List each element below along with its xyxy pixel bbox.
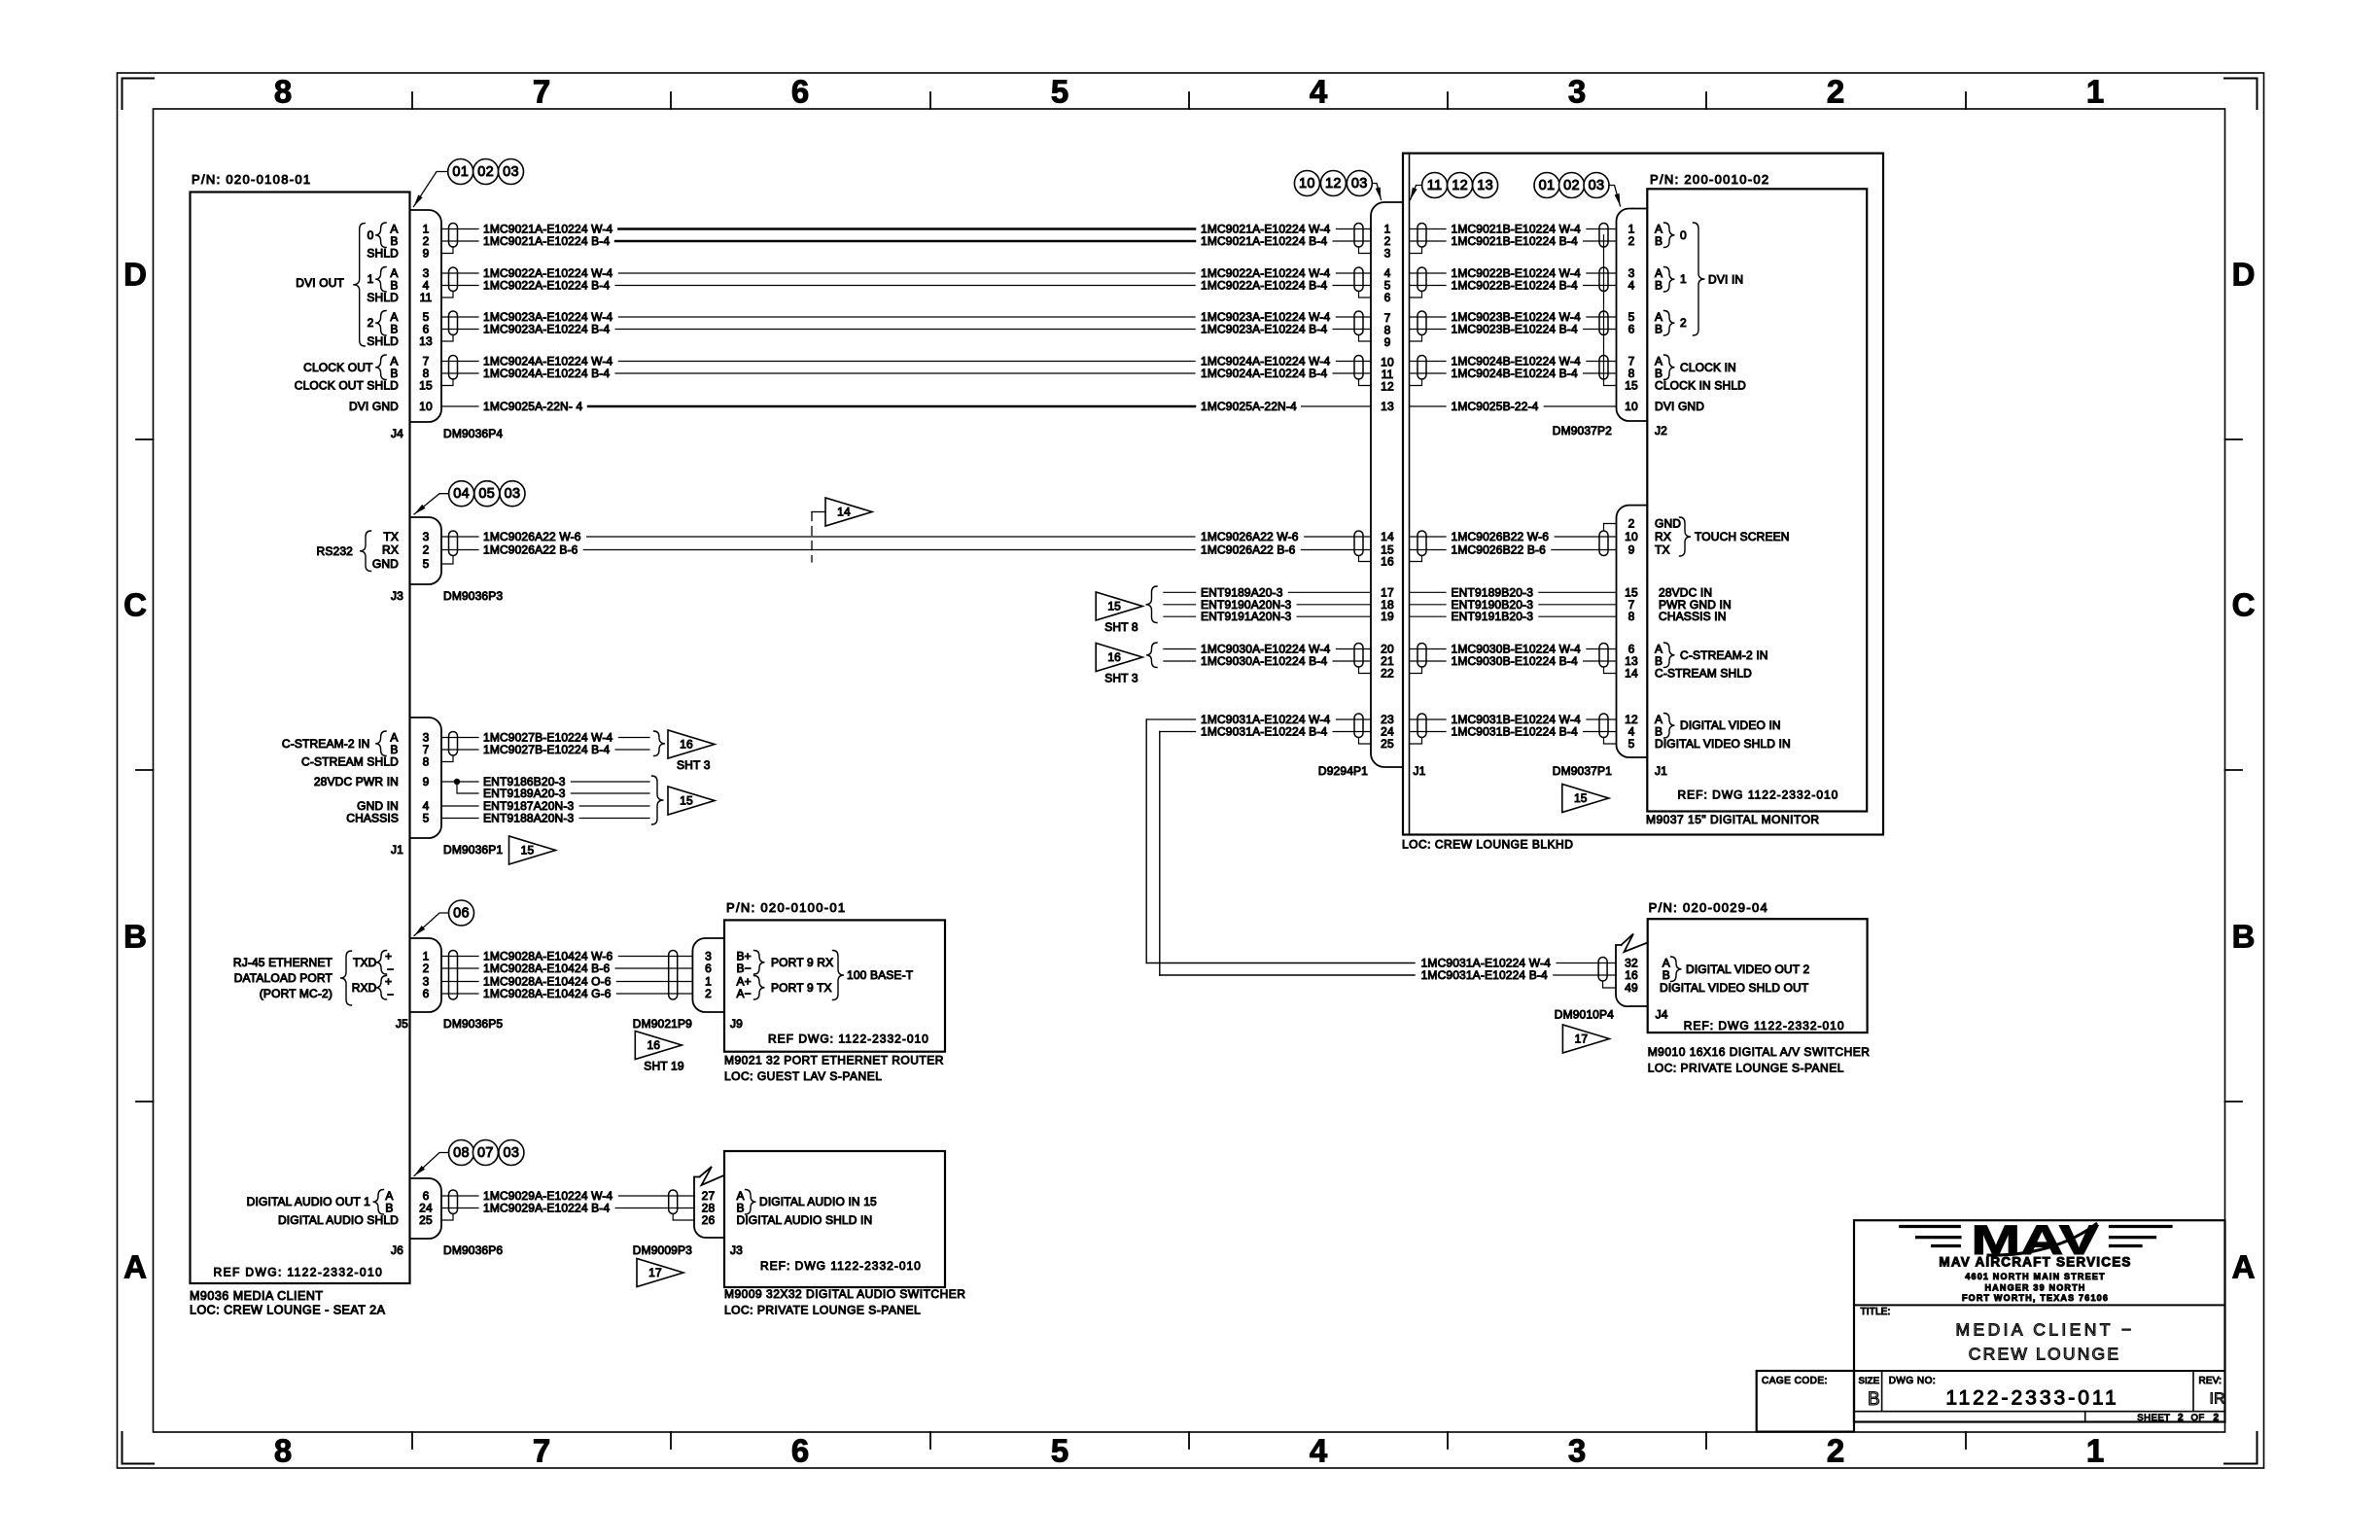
svg-text:01: 01 [452,164,469,180]
wire 1MC9026B22 W-6 [1410,530,1617,543]
title block title divider [1854,1370,2225,1372]
svg-text:(PORT MC-2): (PORT MC-2) [260,987,332,1000]
svg-text:17: 17 [1575,1032,1589,1046]
wire 1MC9029A-E10224 W-4 [441,1189,694,1203]
svg-text:19: 19 [1381,610,1394,623]
title label [1861,1307,1891,1317]
balloon 13 [1473,173,1498,198]
svg-text:J4: J4 [391,427,403,440]
twisted pair symbol 1MC9030A [1354,644,1363,668]
wire 1MC9028A-E10424 G-6 [441,987,692,1000]
J4 pin numbers [419,223,433,414]
svg-text:C-STREAM-2 IN: C-STREAM-2 IN [1680,648,1768,662]
flag 17 at DM9010P4 [1562,1025,1609,1053]
drawing inner border frame [154,109,2225,1432]
svg-text:3: 3 [1568,74,1586,110]
twisted pair symbol 1MC9023A-E10224 at M9036 [449,311,458,335]
svg-text:2: 2 [1628,517,1635,531]
shield hook at DM9010P4 [1603,981,1616,988]
svg-text:05: 05 [478,486,495,502]
wire 1MC9031A-E10224 W-4 lower [1146,957,1616,970]
DM9037P2 label [1553,424,1612,437]
zone tick marks left [136,439,154,1102]
svg-text:J3: J3 [730,1243,743,1257]
svg-text:DM9021P9: DM9021P9 [633,1017,692,1031]
M9009 ref dwg [760,1259,922,1273]
svg-text:1MC9026B22 W-6: 1MC9026B22 W-6 [1452,530,1550,543]
monitor label CHASSIS IN [1659,610,1727,623]
svg-text:26: 26 [702,1213,716,1227]
DM9036P1 label [443,843,503,857]
twisted pair symbol 1MC9031B at bulkhead [1417,714,1426,738]
svg-text:22: 22 [1381,667,1394,681]
svg-text:REF DWG: 1122-2332-010: REF DWG: 1122-2332-010 [214,1266,384,1279]
shield hook left 1MC9023A-E10224 [441,335,453,342]
M9010 location label [1648,1062,1844,1075]
svg-text:C-STREAM SHLD: C-STREAM SHLD [301,755,399,769]
svg-text:15: 15 [680,794,693,808]
dwg no value [1945,1387,2118,1410]
size box divider [1881,1371,1883,1412]
twisted pair symbol 1MC9030B at bulkhead [1417,644,1426,668]
svg-text:ENT9188A20N-3: ENT9188A20N-3 [483,812,575,825]
corner bracket top-right [2224,79,2257,110]
wire 1MC9031B-E10224 W-4 [1410,713,1617,726]
twisted pair symbol 1MC9024A-E10224 at D9294P1 [1354,356,1363,380]
M9037 ref dwg [1678,788,1839,802]
flag 15 at DM9036P1 [509,836,556,864]
svg-text:15: 15 [1574,791,1588,805]
svg-text:REF: DWG 1122-2332-010: REF: DWG 1122-2332-010 [1678,788,1839,802]
svg-text:LOC: GUEST LAV S-PANEL: LOC: GUEST LAV S-PANEL [724,1069,882,1083]
svg-text:PORT 9 TX: PORT 9 TX [771,981,832,995]
svg-text:1MC9030A-E10224 B-4: 1MC9030A-E10224 B-4 [1201,654,1327,668]
sheet row divider [2084,1412,2086,1422]
svg-text:SHEET: SHEET [2137,1413,2170,1423]
size label [1859,1376,1880,1386]
svg-text:13: 13 [419,334,433,348]
svg-text:2: 2 [1680,316,1687,330]
wire 1MC9021B-E10224 B-4 [1410,234,1617,248]
svg-text:P/N: 020-0100-01: P/N: 020-0100-01 [726,900,846,915]
svg-text:9: 9 [423,775,430,788]
wire 1MC9023A-E10224 B-4 [441,323,1371,336]
J5 signal labels RJ-45 [233,950,394,1006]
svg-text:B: B [1662,968,1670,982]
twisted pair symbol 1MC9031B at monitor [1599,714,1608,738]
wire 1MC9024B-E10224 B-4 [1410,367,1617,380]
svg-text:C: C [2232,587,2256,623]
leader to DM9037P2 [1609,186,1621,207]
svg-text:TX: TX [383,530,399,543]
svg-text:1MC9028A-E10424 B-6: 1MC9028A-E10424 B-6 [483,962,610,975]
svg-text:CLOCK IN: CLOCK IN [1680,361,1736,374]
svg-text:2: 2 [423,543,430,557]
wire 1MC9022A-E10224 W-4 [441,266,1371,280]
svg-text:6: 6 [1628,323,1635,336]
svg-text:D: D [2232,257,2256,293]
svg-text:3: 3 [423,530,430,543]
svg-text:DVI GND: DVI GND [349,400,399,413]
svg-text:10: 10 [1299,176,1315,192]
elbow wire vertical B [1159,732,1161,976]
zone numbers top 8-1 [274,74,2104,110]
shield hook left 1MC9021A-E10224 [441,247,453,254]
svg-text:LOC: CREW LOUNGE - SEAT 2A: LOC: CREW LOUNGE - SEAT 2A [190,1304,386,1317]
M9036 name label [190,1289,324,1303]
balloon 06 [449,900,474,926]
svg-text:RX: RX [1655,530,1671,543]
wire 1MC9021A-E10224 B-4 [441,234,1371,248]
svg-text:8: 8 [274,74,292,110]
balloon 03e [1584,173,1609,198]
wire 1MC9026A22 B-6 [441,543,1371,557]
wire 1MC9025B-22-4 [1410,400,1617,413]
svg-text:1MC9025B-22-4: 1MC9025B-22-4 [1452,400,1539,413]
twisted pair symbol 1MC9024B-E10224 at DM9037P2 [1599,356,1608,380]
monitor J1 c-stream labels [1655,643,1768,681]
bulkhead location label [1402,838,1573,852]
J2 pin numbers [1625,223,1638,414]
shield hook left 1MC9027B [441,755,453,762]
svg-text:2: 2 [1827,1433,1844,1469]
wire 1MC9023B-E10224 B-4 [1410,323,1617,336]
shield hook right 1MC9022A-E10224 [1359,292,1372,298]
balloon 10 [1294,171,1319,196]
svg-text:0: 0 [367,228,374,242]
D9294P1 pin numbers [1381,223,1394,752]
shield hook 1MC9031A at D9294P1 [1359,738,1372,745]
connector J9 tab DM9021P9 [692,938,724,1012]
balloon 07 [472,1140,498,1166]
svg-text:M9009 32X32 DIGITAL AUDIO SWIT: M9009 32X32 DIGITAL AUDIO SWITCHER [724,1287,965,1301]
J1 signal labels C-STREAM [282,731,399,825]
M9021 J9 ref dwg [768,1032,929,1046]
shield hook right RS232 at D9294P1 [1359,556,1372,562]
svg-text:P/N: 020-0029-04: P/N: 020-0029-04 [1649,900,1768,915]
svg-text:7: 7 [533,74,550,110]
wire 1MC9024A-E10224 B-4 [441,367,1371,380]
J2 signal labels DVI IN [1655,223,1746,414]
svg-text:DM9037P2: DM9037P2 [1553,424,1612,437]
svg-text:DIGITAL AUDIO OUT 1: DIGITAL AUDIO OUT 1 [247,1195,370,1208]
wire ENT9190A20N-3 to D9294P1 [1164,598,1371,612]
wire 1MC9031A-E10224 W-4 upper [1146,713,1371,726]
gnd hook at monitor J1 pin 2 [1604,524,1617,531]
svg-text:16: 16 [1625,968,1638,982]
svg-text:DIGITAL AUDIO IN 15: DIGITAL AUDIO IN 15 [759,1195,877,1208]
twisted pair symbol 1MC9029A at M9036 [449,1190,458,1214]
svg-text:IR: IR [2210,1391,2225,1408]
wire 1MC9021B-E10224 W-4 [1410,223,1617,236]
svg-text:14: 14 [837,506,851,519]
svg-text:DM9036P1: DM9036P1 [443,843,503,857]
svg-text:TOUCH SCREEN: TOUCH SCREEN [1695,530,1790,543]
svg-text:DIGITAL VIDEO SHLD OUT: DIGITAL VIDEO SHLD OUT [1660,981,1809,995]
M9009 audio switcher box [724,1151,945,1287]
monitor J1 digital video labels [1655,713,1791,751]
corner bracket bottom-left [122,1432,155,1464]
wire 1MC9026B22 B-6 [1410,543,1617,557]
svg-text:DM9010P4: DM9010P4 [1555,1008,1614,1022]
svg-text:1: 1 [2086,74,2104,110]
shield hook touch at bulkhead [1410,556,1422,562]
twisted pair symbol 1MC9021A-E10224 at D9294P1 [1354,224,1363,248]
svg-text:7: 7 [533,1433,550,1469]
svg-text:15: 15 [1625,379,1638,393]
monitor J1 touch screen labels [1655,517,1790,557]
svg-text:1MC9021B-E10224 B-4: 1MC9021B-E10224 B-4 [1452,234,1578,248]
shield hook 1MC9030B at bulkhead [1410,667,1422,674]
flag 15 at DM9037P1 [1562,785,1609,813]
svg-text:1MC9031B-E10224 B-4: 1MC9031B-E10224 B-4 [1452,725,1578,739]
svg-text:CLOCK OUT: CLOCK OUT [303,361,373,374]
wire 1MC9031B-E10224 B-4 [1410,725,1617,739]
balloon 08 [449,1140,474,1166]
wire 1MC9028A-E10424 O-6 [441,975,692,989]
twisted pair symbol 1MC9022A-E10224 at D9294P1 [1354,267,1363,292]
M9009 signal labels [737,1189,878,1227]
J3 label [391,589,403,603]
flag 16 SHT 19 [635,1032,684,1073]
svg-text:5: 5 [1628,737,1635,751]
svg-text:17: 17 [648,1266,662,1279]
wire 1MC9021A-E10224 W-4 [441,223,1371,236]
svg-text:10: 10 [1625,530,1638,543]
svg-text:1MC9023A-E10224 B-4: 1MC9023A-E10224 B-4 [1201,323,1327,336]
svg-text:DM9036P3: DM9036P3 [443,589,503,603]
M9009 location label [724,1304,921,1317]
svg-text:RXD: RXD [352,981,377,995]
shield hook 1MC9021B-E10224 at bulkhead [1410,247,1422,254]
shield hook left RS232 [441,556,453,564]
svg-text:+: + [385,975,392,989]
svg-text:04: 04 [453,486,470,502]
twisted pair symbol 1MC9021B-E10224 at DM9037P2 [1599,224,1608,248]
svg-text:02: 02 [477,164,494,180]
twisted pair symbol 1MC9023B-E10224 at bulkhead [1417,311,1426,335]
zone numbers bottom 8-1 [274,1433,2104,1469]
svg-text:REF DWG: 1122-2332-010: REF DWG: 1122-2332-010 [768,1032,929,1046]
svg-text:1MC9030B-E10224 B-4: 1MC9030B-E10224 B-4 [1452,654,1578,668]
twisted pair symbol 1MC9028A at DM9021P9 [669,951,678,1000]
M9010 signal labels [1660,957,1809,996]
leader to bulkhead J1 [1411,186,1422,200]
svg-text:5: 5 [423,812,430,825]
svg-text:2: 2 [423,962,430,975]
svg-text:M9036 MEDIA CLIENT: M9036 MEDIA CLIENT [190,1289,324,1303]
svg-text:CHASSIS IN: CHASSIS IN [1659,610,1727,623]
svg-text:PORT 9 RX: PORT 9 RX [771,956,833,969]
svg-text:15: 15 [521,844,535,857]
svg-text:1MC9022B-E10224 B-4: 1MC9022B-E10224 B-4 [1452,279,1578,293]
DM9021P9 label [633,1017,692,1031]
shield hook right 1MC9024A-E10224 [1359,379,1372,386]
wire 1MC9030B-E10224 W-4 [1410,643,1617,656]
M9021 ethernet router box [724,920,945,1051]
company address line 1 [1965,1272,2105,1281]
svg-text:C-STREAM SHLD: C-STREAM SHLD [1655,667,1752,681]
svg-text:B: B [2232,919,2256,955]
J9 label [730,1017,743,1031]
wire 1MC9022A-E10224 B-4 [441,279,1371,293]
svg-text:+: + [385,950,392,963]
svg-text:B: B [1868,1389,1880,1410]
svg-text:DIGITAL VIDEO IN: DIGITAL VIDEO IN [1680,718,1781,732]
balloon 01 [448,159,473,185]
svg-text:12: 12 [1452,178,1468,193]
company name [1939,1254,2131,1269]
svg-text:2: 2 [2178,1413,2184,1423]
svg-text:1MC9022A-E10224 B-4: 1MC9022A-E10224 B-4 [1201,279,1327,293]
shield hook left 1MC9022A-E10224 [441,292,453,298]
wire ENT9189B20-3 [1410,585,1617,599]
flag 16 SHT 3 left [1096,643,1157,685]
svg-text:CLOCK OUT SHLD: CLOCK OUT SHLD [295,379,399,393]
leader to J3 [414,494,449,514]
svg-text:16: 16 [1381,555,1394,569]
svg-text:1: 1 [1680,272,1687,286]
svg-text:11: 11 [420,291,433,304]
wire 1MC9022B-E10224 W-4 [1410,266,1617,280]
svg-text:ENT9191B20-3: ENT9191B20-3 [1452,610,1534,623]
svg-text:03: 03 [1589,178,1605,193]
connector J4 tab DM9010P4 with break [1616,934,1648,1007]
leader to J5 [414,913,449,936]
svg-text:DIGITAL VIDEO SHLD IN: DIGITAL VIDEO SHLD IN [1655,737,1791,751]
svg-text:J9: J9 [730,1017,743,1031]
title block logo divider [1854,1304,2225,1306]
M9010 ref dwg [1684,1019,1845,1032]
svg-text:5: 5 [423,557,430,571]
svg-text:03: 03 [504,1145,520,1161]
svg-text:2: 2 [367,316,374,330]
svg-text:1MC9024A-E10224 B-4: 1MC9024A-E10224 B-4 [483,367,610,380]
svg-text:1MC9022A-E10224 B-4: 1MC9022A-E10224 B-4 [483,279,610,293]
svg-text:B: B [1655,234,1662,248]
svg-text:1MC9024A-E10224 B-4: 1MC9024A-E10224 B-4 [1201,367,1327,380]
svg-text:P/N: 020-0108-01: P/N: 020-0108-01 [192,172,311,187]
shield hook 1MC9024B-E10224 at bulkhead [1410,379,1422,386]
wire 1MC9026A22 W-6 [441,530,1371,543]
shield hook right 1MC9029A [673,1214,694,1221]
svg-text:A: A [123,1249,147,1285]
J4 label [391,427,403,440]
J5 label [396,1017,408,1031]
bulkhead feed-through line [1409,154,1411,835]
leader to J6 [414,1153,449,1176]
crew lounge bulkhead box [1403,154,1883,835]
svg-text:RJ-45 ETHERNET: RJ-45 ETHERNET [233,956,333,969]
svg-text:9: 9 [423,247,430,261]
svg-text:14: 14 [1381,530,1394,543]
svg-text:C: C [123,587,147,623]
svg-text:03: 03 [1351,176,1368,192]
wire ENT9186B20-3 [441,775,649,788]
svg-text:DM9036P4: DM9036P4 [443,427,503,440]
balloon 12b [1448,173,1473,198]
svg-text:16: 16 [647,1038,660,1052]
svg-text:6: 6 [791,1433,809,1469]
balloon 03d [1347,171,1372,196]
J4 signal labels DVI OUT [295,223,399,414]
wire 1MC9030B-E10224 B-4 [1410,654,1617,668]
connector J1 tab DM9036P1 [410,717,442,838]
connector DM9037P1 tab [1617,506,1648,757]
twisted pair symbol 1MC9031A [1354,714,1363,738]
twisted pair symbol 1MC9021B-E10224 at bulkhead [1417,224,1426,248]
flag 16 SHT 3 for C-STREAM out [654,730,716,772]
twisted pair symbol 1MC9021A-E10224 at M9036 [449,224,458,248]
svg-text:J3: J3 [391,589,403,603]
connector J3 tab DM9009P3 with break [694,1167,724,1238]
svg-text:10: 10 [1625,400,1638,413]
J1 pin numbers [423,731,430,825]
svg-text:100 BASE-T: 100 BASE-T [847,968,914,982]
svg-text:07: 07 [477,1145,494,1161]
shield hook 1MC9031B at bulkhead [1410,738,1422,745]
svg-text:4: 4 [1310,1433,1328,1469]
DM9036P6 label [443,1243,503,1257]
twisted pair symbol 1MC9023B-E10224 at DM9037P2 [1599,311,1608,335]
zone letters right D C B A [2232,257,2256,1285]
corner bracket bottom-right [2224,1432,2257,1464]
M9009 J3 label [730,1243,743,1257]
svg-text:DVI OUT: DVI OUT [296,276,344,290]
svg-text:DIGITAL VIDEO OUT 2: DIGITAL VIDEO OUT 2 [1686,962,1809,976]
svg-text:DVI IN: DVI IN [1708,273,1743,287]
svg-text:M9021 32 PORT ETHERNET ROUTER: M9021 32 PORT ETHERNET ROUTER [724,1054,944,1067]
svg-text:03: 03 [505,486,521,502]
company address line 3 [1962,1293,2109,1303]
svg-text:15: 15 [419,379,433,393]
twisted pair symbol 1MC9030B at monitor [1599,644,1608,668]
wire 1MC9023A-E10224 W-4 [441,310,1371,324]
connector DM9037P2 tab [1617,209,1648,422]
svg-text:SHT 8: SHT 8 [1104,620,1138,634]
balloon 12 [1320,171,1346,196]
svg-text:1MC9031A-E10224 B-4: 1MC9031A-E10224 B-4 [1201,725,1327,739]
connector J3 tab DM9036P3 [410,517,442,584]
connector J4 tab DM9036P4 [410,210,442,422]
svg-text:MEDIA CLIENT −: MEDIA CLIENT − [1956,1320,2135,1340]
shield hook 1MC9022B-E10224 at bulkhead [1410,292,1422,298]
J3 pin numbers [423,530,430,571]
svg-text:J6: J6 [391,1243,403,1257]
shield hook left 1MC9029A [441,1214,453,1221]
twisted pair symbol 1MC9026B at bulkhead [1417,531,1426,556]
leader to D9294P1 [1372,184,1381,200]
wire 1MC9030A-E10224 B-4 [1164,654,1371,668]
svg-text:16: 16 [1107,650,1121,664]
M9021 name label [724,1054,944,1067]
svg-text:8: 8 [1628,610,1635,623]
wire 1MC9030A-E10224 W-4 [1164,643,1371,656]
svg-text:SHLD: SHLD [367,334,399,348]
zone tick marks top [412,92,1966,109]
svg-text:3: 3 [1384,247,1391,261]
svg-text:J5: J5 [396,1017,408,1031]
svg-text:1MC9025A-22N- 4: 1MC9025A-22N- 4 [483,400,582,413]
M9021 part number [726,900,846,915]
svg-text:02: 02 [1563,178,1580,193]
svg-text:1MC9031A-E10224 B-4: 1MC9031A-E10224 B-4 [1421,968,1548,982]
svg-text:B: B [123,919,147,955]
size value B [1868,1389,1880,1410]
svg-text:ENT9189A20-3: ENT9189A20-3 [483,787,566,800]
wire ENT9188A20N-3 [441,812,649,825]
rev value IR [2210,1391,2225,1408]
